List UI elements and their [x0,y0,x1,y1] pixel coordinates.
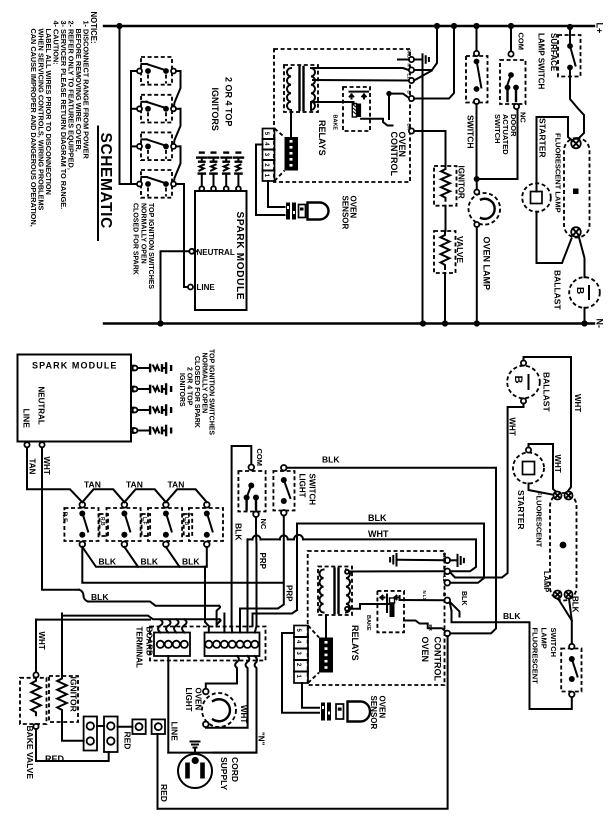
svg-text:2 OR 4 TOP: 2 OR 4 TOP [224,77,234,126]
svg-text:NEUTRAL: NEUTRAL [37,387,46,425]
wire: board to oven light bottom (WHT) [206,656,249,728]
wire: ignitor leads [61,613,63,676]
fluorescent lamp (schematic) [564,138,590,238]
svg-text:SWITCH: SWITCH [493,114,502,144]
svg-text:CLOSED FOR SPARK: CLOSED FOR SPARK [193,356,200,428]
svg-text:WHT: WHT [507,418,516,436]
wire: transformer to terminal 3 [313,79,409,82]
wire: valve to N- rail [444,273,446,324]
svg-text:TOP IGNITION SWITCHES: TOP IGNITION SWITCHES [147,203,154,289]
svg-text:SUPPLY: SUPPLY [219,757,229,791]
svg-text:NORMALLY OPEN: NORMALLY OPEN [140,203,147,264]
svg-text:BLK: BLK [234,523,244,541]
svg-text:RED: RED [45,754,65,764]
oven lamp (schematic) [469,182,501,228]
wire: terminal 3 diagonal [414,71,432,81]
wire: starter bottom to lamp [529,484,553,495]
svg-text:SURFACE: SURFACE [549,33,558,72]
svg-text:BLK: BLK [141,556,159,566]
svg-text:LIGHT: LIGHT [298,474,307,498]
svg-text:LIGHT: LIGHT [184,688,193,712]
svg-text:WHT: WHT [239,705,248,723]
svg-text:BAKE VALVE: BAKE VALVE [25,726,35,780]
wire: junction to door switch NC [477,109,518,179]
wire: bottom run to oven control T5 [158,636,448,809]
svg-text:BALLAST: BALLAST [542,372,552,412]
svg-text:COM: COM [255,449,264,467]
svg-text:GND: GND [407,49,412,59]
wire: bake valve RED to connector [36,729,109,764]
ground (schematic, at terminal 1) [414,54,429,64]
wire: bake relay to terminal 4 [389,94,409,98]
svg-text:FLUORESCENT: FLUORESCENT [535,491,544,548]
svg-text:FLUORESCENT: FLUORESCENT [531,628,540,685]
svg-text:TAN: TAN [84,480,101,490]
N- rail [104,320,594,326]
wire: ballast bottom WHT to T2 [451,404,524,578]
svg-text:SWITCH: SWITCH [549,628,558,658]
wire: board to supply cord N [214,656,257,753]
svg-text:L.F: L.F [141,517,147,525]
svg-text:TAN: TAN [126,480,143,490]
wire: terminal 4 to L+ rail [414,26,454,99]
wire: transformer to T2 [349,570,445,572]
wire: right bus to LINE terminal [181,184,188,287]
svg-text:B: B [512,376,524,384]
svg-text:NORMALLY OPEN: NORMALLY OPEN [201,353,208,414]
wire: bake relay to T4 [400,599,445,601]
ground (bottom, right of T1) [450,555,464,566]
svg-text:NEUTRAL: NEUTRAL [197,248,235,257]
oven control box (schematic) [274,49,410,182]
wire: neutral to N- rail [161,251,190,323]
wire: transformer to bake coil [311,102,354,110]
oven sensor (bottom) [321,702,370,722]
ballast (bottom) [507,360,540,403]
svg-text:COM: COM [517,33,526,51]
svg-text:SWITCH: SWITCH [308,474,317,506]
supply cord [178,742,212,789]
svg-text:CONTROL: CONTROL [389,132,399,177]
svg-text:PRP: PRP [284,585,293,602]
bake relay (bottom) [365,591,404,632]
oven control box (bottom) [308,551,445,685]
svg-text:BLK: BLK [322,454,340,464]
svg-text:WHT: WHT [368,529,389,539]
svg-text:BLK: BLK [368,513,387,523]
wire: ground bus down to N- rail [422,65,424,324]
svg-text:TERMINAL: TERMINAL [135,627,144,668]
wire: board to oven light top [206,656,239,689]
svg-text:OVEN LAMP: OVEN LAMP [482,237,492,291]
wire: lamp to ballast [579,236,585,278]
svg-text:BAKE: BAKE [331,115,337,131]
igniters (bottom, horizontal) [133,363,172,435]
svg-text:R.F.: R.F. [61,512,68,524]
top ignition switches S1-S4 (schematic) [131,57,188,287]
svg-text:WHT: WHT [573,394,582,412]
wire: light switch to oven control T5 [287,468,496,634]
svg-text:BLK: BLK [460,591,467,605]
oven light [202,689,236,727]
svg-text:OVEN: OVEN [378,696,387,719]
wire: starter top loop [537,117,574,183]
surface unit switches [61,502,223,547]
svg-text:RED: RED [123,732,133,750]
wire: surface lamp switch to fluorescent lamp [570,77,584,140]
svg-text:B: B [442,593,447,596]
wire: lamp bottom to fluorescent lamp switch [558,596,580,644]
wire: LINE from board to supply cord [168,656,256,753]
oven sensor (schematic) [286,203,329,220]
svg-text:L1: L1 [442,576,447,582]
svg-text:SPARK MODULE: SPARK MODULE [234,212,245,301]
oven selector switch (schematic) [466,26,488,149]
igniters (schematic) [197,153,243,192]
svg-text:IGNITOR: IGNITOR [69,677,79,712]
svg-text:WHT: WHT [553,455,562,473]
svg-text:PRP: PRP [258,553,267,570]
svg-text:BLK: BLK [503,611,521,621]
wire: NC to terminal board (PRP) [255,517,258,626]
wire: red square to bottom run [158,734,170,809]
wire: light switch bottom (PRP) [240,516,284,629]
connector P1 (schematic) [263,129,275,182]
red terminal squares [118,719,165,749]
svg-text:LINE: LINE [169,722,179,742]
wire: oven lamp to N- rail [476,227,478,324]
wire: bake relay to T5 [404,621,445,632]
svg-text:LAMP SWITCH: LAMP SWITCH [537,33,546,90]
svg-text:BAKE: BAKE [365,615,371,631]
wire: transformer to bake coil [349,604,390,609]
svg-text:N: N [407,64,412,67]
svg-text:VALVE: VALVE [455,236,465,263]
wire: bus drops into terminal board [158,567,256,633]
notice text block [29,12,98,227]
svg-text:SENSOR: SENSOR [341,196,350,230]
door actuated switch (schematic) [500,26,528,123]
svg-text:N L1: N L1 [422,591,427,601]
light switch (bottom) [273,465,316,516]
starter (bottom) [513,447,544,483]
BLK bus to oven control T3 [253,513,485,626]
wire: connector to oven sensor (bottom) [282,633,319,713]
wire: ballast top WHT [524,357,582,491]
svg-text:OVEN: OVEN [193,688,202,711]
ribbon cable (bottom) [308,615,333,683]
svg-text:NC: NC [519,112,528,123]
svg-text:CLOSED FOR SPARK: CLOSED FOR SPARK [132,203,139,275]
svg-text:RELAYS: RELAYS [350,625,360,661]
wire: T4 BLK run to fluorescent lamp switch [450,591,572,709]
transformer (bottom) [318,567,352,616]
wire: WHT run to terminal board [36,616,220,650]
bake relay (schematic) [331,87,392,131]
svg-text:RELAYS: RELAYS [317,120,327,156]
svg-text:2 OR 4 TOP: 2 OR 4 TOP [186,367,193,406]
svg-text:BLK: BLK [571,596,580,613]
svg-text:FLUORESCENT LAMP: FLUORESCENT LAMP [554,133,563,213]
wire: connector to oven sensor [256,145,285,216]
spark module [18,355,137,448]
svg-text:TAN: TAN [168,480,185,490]
svg-text:N-: N- [595,319,605,329]
wire: ignitor to valve [445,206,447,231]
wire: terminal 5 to ignitor [414,131,445,166]
wire: TAN lead to surface switches [27,447,82,502]
ballast (schematic) [569,277,600,308]
svg-text:TOP IGNITION SWITCHES: TOP IGNITION SWITCHES [208,349,215,435]
ignitor (schematic) [434,166,466,206]
fluorescent lamp (bottom) [550,492,577,601]
svg-text:IGNITORS: IGNITORS [178,373,185,407]
connector P1 (bottom) [294,626,308,684]
svg-text:BR: BR [428,625,433,632]
connector blocks [84,717,118,753]
ribbon cable (schematic) [275,112,299,181]
ground (bottom, inside box) [390,554,444,566]
oven control terminals (bottom) [442,553,450,637]
wire: WHT horizontal run [88,602,219,606]
svg-text:SWITCH: SWITCH [466,115,476,149]
wire: switch1 bottom down [82,547,283,583]
svg-text:BLK: BLK [91,592,109,602]
wire: switch chain diagonals [174,71,181,106]
transformer T1 (schematic) [284,65,318,112]
wire: WHT lead down [42,447,79,589]
terminal board [150,627,266,661]
svg-text:BLK: BLK [182,556,200,566]
svg-text:WHT: WHT [42,457,51,475]
schematic title [97,127,114,241]
L+ rail [104,23,594,30]
svg-text:B: B [407,91,412,94]
wire: rail to switch bank [120,26,138,184]
svg-text:TAN: TAN [28,459,37,475]
svg-text:CAN CAUSE IMPROPER AND DANGERO: CAN CAUSE IMPROPER AND DANGEROUS OPERATI… [29,29,38,227]
wire: terminal 2 to L+ rail [414,26,437,70]
svg-text:BOARD: BOARD [145,627,154,657]
svg-text:LINE: LINE [22,409,32,429]
TAN bus across switch tops [82,480,207,503]
svg-text:R.B: R.B [99,517,105,526]
svg-text:SCHEMATIC: SCHEMATIC [97,133,114,229]
svg-text:BALLAST: BALLAST [553,270,563,310]
surface lamp switch (schematic) [558,27,581,77]
BLK bus under switches [82,547,207,567]
svg-text:LAMP: LAMP [542,571,551,592]
svg-text:SPARK MODULE: SPARK MODULE [32,361,118,371]
svg-text:STARTER: STARTER [538,118,548,158]
wire: starter bottom loop [537,212,572,263]
wire: transformer to terminal 2 [313,68,409,70]
wire: connector bottom to oven sensor [268,181,285,207]
spark module (schematic) [188,191,247,310]
wire: switch left bus [130,71,132,184]
svg-text:LINE: LINE [197,283,216,292]
svg-text:SENSOR: SENSOR [369,696,378,730]
junction node [474,176,480,182]
door switch COM/NC (bottom) [232,446,268,626]
svg-text:N: N [442,566,447,569]
fluorescent lamp switch [561,644,581,697]
svg-text:BR: BR [407,124,412,131]
wire: switch to junction [476,104,478,179]
starter (schematic) [522,183,551,212]
svg-text:WHT: WHT [37,632,46,650]
svg-text:NC: NC [259,519,268,530]
wire: ballast to N- rail [584,308,586,324]
svg-text:IGNITOR: IGNITOR [457,166,466,199]
WHT bus to oven control T2 [248,529,477,627]
wire: starter top WHT [529,444,562,492]
bake valve [20,620,47,730]
svg-text:RED: RED [159,784,169,802]
svg-text:"N": "N" [256,732,265,746]
svg-text:L1: L1 [407,74,412,80]
svg-text:B: B [574,287,585,294]
ignitor (bottom) [49,676,79,722]
svg-text:LAMP: LAMP [540,628,549,649]
svg-text:L.B: L.B [183,517,189,525]
oven control terminals (schematic) [398,49,414,134]
svg-text:CORD: CORD [230,757,240,782]
svg-text:IGNITORS: IGNITORS [210,88,220,131]
svg-text:CONTROL: CONTROL [433,637,443,682]
svg-text:BLK: BLK [99,556,117,566]
svg-text:STARTER: STARTER [516,490,526,530]
valve (schematic) [434,231,465,273]
svg-text:L+: L+ [595,23,605,34]
svg-text:OVEN: OVEN [420,637,430,663]
